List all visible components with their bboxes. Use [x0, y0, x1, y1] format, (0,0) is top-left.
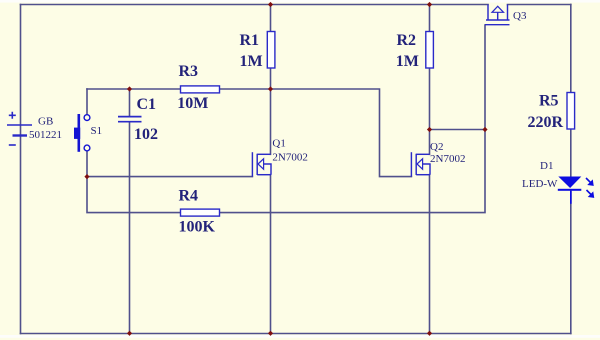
wire Q3 gate down to node B	[484, 25, 486, 130]
capacitor C1	[118, 117, 142, 122]
svg-text:2N7002: 2N7002	[272, 152, 307, 164]
svg-text:Q1: Q1	[272, 138, 285, 150]
svg-text:1M: 1M	[396, 53, 419, 70]
wire D1 cathode to bottom rail	[570, 190, 572, 334]
LED D1	[558, 177, 582, 204]
resistor R2	[426, 32, 434, 69]
wire top rail right (Q3 drain to R5 branch)	[508, 4, 571, 6]
wire right branch down to R5	[570, 5, 572, 93]
junction node B left	[427, 127, 432, 132]
wire left battery branch	[20, 5, 22, 334]
svg-text:R1: R1	[240, 32, 260, 49]
transistor Q1 (N-MOSFET)	[252, 152, 271, 176]
wire R4 left lead up to S1 node	[87, 177, 181, 213]
svg-text:C1: C1	[137, 96, 157, 113]
wire bottom rail	[21, 333, 571, 335]
wire Q1 source to bottom rail	[270, 175, 272, 334]
wire S1 bottom lead	[86, 151, 88, 177]
junction node B right (Q3 gate)	[482, 127, 487, 132]
wire R5 bottom to D1 anode	[570, 129, 572, 177]
resistor R3	[181, 86, 220, 93]
junction bottom rail Q2	[427, 331, 432, 336]
resistor R1	[267, 32, 275, 69]
wire R1 top lead	[270, 5, 272, 32]
wire C1 top lead	[129, 89, 131, 116]
wire Q2 drain from node B	[429, 130, 431, 155]
wire S1 top lead	[86, 89, 88, 115]
svg-text:S1: S1	[91, 125, 103, 137]
svg-text:1M: 1M	[240, 53, 263, 70]
svg-text:R4: R4	[179, 188, 199, 205]
svg-text:100K: 100K	[179, 219, 216, 236]
svg-text:102: 102	[134, 126, 158, 143]
svg-text:R3: R3	[179, 63, 199, 80]
svg-text:Q3: Q3	[513, 10, 527, 22]
wire R1 bottom lead	[270, 68, 272, 89]
wire node row S1 to R3 left	[87, 88, 181, 90]
junction bottom rail Q1	[268, 331, 273, 336]
svg-text:LED-W: LED-W	[522, 178, 558, 190]
svg-text:501221: 501221	[29, 129, 62, 141]
junction S1 bottom node	[84, 174, 89, 179]
svg-text:Q2: Q2	[430, 141, 443, 153]
wire top rail left (battery + to Q3 source)	[21, 4, 489, 6]
wire Q1 drain from node A	[270, 89, 272, 154]
wire R2 bottom lead	[429, 68, 431, 130]
svg-text:R5: R5	[539, 93, 559, 110]
wire Q1 gate lead	[87, 176, 252, 178]
svg-text:10M: 10M	[177, 95, 208, 112]
junction node A	[268, 86, 273, 91]
resistor R4	[181, 209, 220, 216]
transistor Q3 (P-MOSFET, high side)	[485, 5, 510, 25]
junction bottom rail C1	[127, 331, 132, 336]
svg-text:R2: R2	[397, 32, 417, 49]
wire node B down to R4 right	[220, 130, 486, 213]
D1 emission arrows	[586, 178, 593, 197]
wire C1 bottom lead	[129, 122, 131, 334]
wire node A to Q2 gate	[271, 89, 412, 177]
junction R2 top rail	[427, 2, 432, 7]
junction R1 top rail	[268, 2, 273, 7]
svg-text:GB: GB	[38, 116, 53, 128]
battery GB	[7, 112, 32, 145]
wire node B row	[430, 129, 486, 131]
junction C1 top node	[127, 86, 132, 91]
switch S1	[74, 114, 90, 152]
wire R2 top lead	[429, 5, 431, 32]
svg-text:2N7002: 2N7002	[430, 153, 465, 165]
svg-text:220R: 220R	[528, 114, 564, 131]
wire Q2 source to bottom rail	[429, 175, 431, 334]
svg-text:D1: D1	[540, 160, 553, 172]
transistor Q2 (N-MOSFET)	[411, 152, 430, 176]
resistor R5	[567, 93, 575, 130]
wire R3 right to node A	[220, 88, 271, 90]
